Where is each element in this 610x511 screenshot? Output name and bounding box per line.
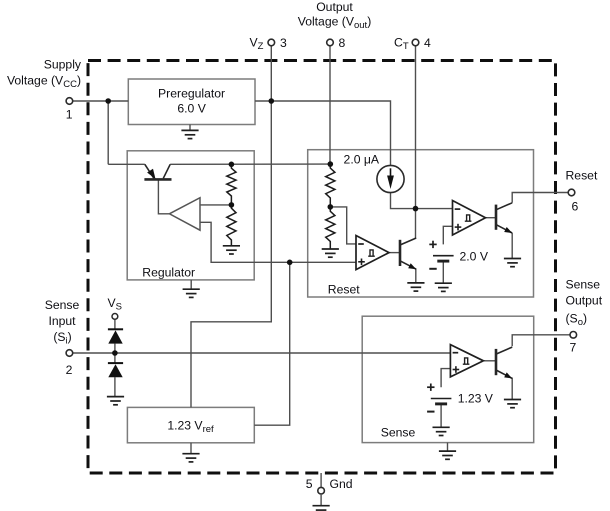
wire Vs pin to diode D1 [114, 319, 116, 329]
svg-text:Input: Input [48, 314, 76, 328]
Reset block box [308, 150, 534, 297]
ground battery B1 [435, 283, 452, 291]
node VZ-preregulator junction [269, 98, 275, 104]
wire sense input rail pin 2 to comparator U3 [73, 352, 451, 354]
Regulator block box [127, 151, 254, 280]
svg-text:6.0 V: 6.0 V [177, 102, 206, 116]
node R1 top junction [229, 162, 235, 168]
wire diode D2 to ground [114, 377, 116, 396]
wire regulator transistor base to op-amp output [158, 179, 169, 213]
comparator U1 reset lower [356, 236, 389, 270]
node Vout divider top [328, 161, 334, 167]
pin 7 Sense Output [566, 278, 603, 355]
Preregulator block box [128, 79, 255, 125]
svg-text:3: 3 [280, 36, 287, 50]
wire Q2 collector to Reset pin 6 [512, 193, 568, 203]
battery B1 2.0 V [429, 241, 453, 269]
ground diode D2 [107, 397, 124, 405]
wire Q3 emitter to ground [511, 378, 513, 400]
svg-text:2.0 μA: 2.0 μA [344, 153, 380, 167]
pin 6 Reset output [566, 169, 598, 214]
comparator U3 sense [450, 345, 483, 377]
ground Vref block [182, 454, 199, 462]
wire battery B2 to ground [440, 404, 442, 427]
pin 4 CT [394, 36, 431, 53]
wire comparator U2 output to Q2 base [485, 217, 496, 219]
wire Regulator ground stub [190, 280, 192, 289]
ground Regulator block [183, 289, 200, 297]
svg-text:Reset: Reset [328, 283, 360, 297]
ground Q1 emitter [407, 283, 424, 291]
svg-text:Reset: Reset [566, 169, 598, 183]
outer dashed IC boundary [88, 61, 556, 474]
current source I1 2.0 uA [377, 165, 404, 192]
svg-text:6: 6 [572, 200, 579, 214]
wire VZ pin 3 down and over to Vref [191, 46, 271, 408]
svg-text:4: 4 [424, 36, 431, 50]
wire pin1 to Preregulator [73, 100, 129, 102]
transistor Q2 reset output [496, 203, 512, 233]
wire CT pin 4 down [415, 46, 417, 209]
wire Preregulator output to current source [255, 101, 391, 165]
ground reset divider [322, 249, 339, 257]
transistor Q1 reset driver [400, 238, 416, 269]
pin 5 Gnd [306, 473, 353, 506]
pin Vs internal [108, 296, 122, 319]
node reset divider tap [328, 204, 334, 210]
ground battery B2 [433, 427, 450, 435]
svg-text:Regulator: Regulator [142, 266, 195, 280]
svg-text:1.23 V: 1.23 V [458, 392, 494, 406]
node sense input junction [112, 350, 118, 356]
pin 1 Supply Voltage VCC [7, 58, 82, 122]
transistor Q4 regulator PNP [144, 164, 171, 179]
ground Q3 emitter [504, 400, 521, 408]
wire Preregulator ground stub [189, 125, 191, 131]
wire sense node to diode D2 [114, 353, 116, 363]
node reference junction [287, 260, 293, 266]
svg-text:8: 8 [339, 36, 346, 50]
wire reference node down to Vref block [254, 262, 289, 425]
wire Q2 emitter to ground [511, 233, 513, 259]
diode D1 sense clamp to Vs [108, 329, 123, 343]
op-amp U4 regulator error amp [169, 198, 200, 231]
wire reference rail from op-amp to comparator U1 [200, 222, 356, 262]
wire comparator U3 noninverting input to battery [441, 369, 450, 388]
svg-text:Sense: Sense [381, 426, 416, 440]
wire battery B1 to ground [442, 261, 444, 283]
wire op-amp feedback input [200, 204, 231, 206]
wire Vout pin 8 down to Reset divider [329, 46, 331, 164]
wire current source output to comparator U2 inverting input [391, 193, 453, 209]
resistor R4 reset divider lower [326, 207, 335, 249]
comparator U2 reset output [453, 201, 486, 236]
wire diode D1 to sense node [114, 344, 116, 353]
transistor Q3 sense output [496, 347, 512, 378]
wire comparator U1 output to Q1 base [389, 252, 400, 254]
ground regulator divider [223, 246, 240, 254]
wire Reset divider tap to comparator U1 inverting input [330, 207, 356, 244]
1.23 Vref block box [127, 407, 254, 442]
wire Vref output stub [190, 406, 192, 408]
resistor R3 reset divider upper [326, 164, 335, 207]
wire Q1 emitter to ground [415, 269, 417, 283]
wire Q3 collector to Sense Output pin 7 [512, 335, 570, 346]
svg-text:Output: Output [566, 294, 603, 308]
node regulator divider tap [229, 202, 235, 208]
svg-text:5: 5 [306, 477, 313, 491]
ground Preregulator [181, 130, 198, 138]
svg-text:Sense: Sense [566, 278, 601, 292]
ground Q2 emitter [504, 259, 521, 267]
wire Vref ground stub [190, 443, 192, 454]
node Vcc junction [105, 98, 111, 104]
resistor R1 regulator divider upper [227, 164, 236, 205]
pin 2 Sense Input [45, 298, 80, 377]
node CT junction [413, 206, 419, 212]
pin 3 VZ [250, 36, 288, 53]
wire regulator transistor collector to Reset divider [170, 163, 330, 165]
wire Sense block ground stub [447, 443, 449, 452]
svg-text:7: 7 [570, 341, 577, 355]
svg-text:Output: Output [316, 0, 353, 14]
pin 8 Output Voltage Vout [298, 0, 372, 50]
ground pin 5 [313, 506, 330, 511]
battery B2 1.23 V [427, 384, 451, 412]
Sense block box [362, 316, 534, 442]
svg-text:Preregulator: Preregulator [158, 87, 225, 101]
diode D2 sense clamp to ground [108, 363, 123, 377]
wire Vcc rail to regulator transistor emitter [108, 163, 145, 165]
svg-text:2.0 V: 2.0 V [460, 249, 489, 263]
svg-text:Gnd: Gnd [330, 477, 353, 491]
wire comparator U3 output to Q3 base [484, 360, 496, 362]
wire Vcc branch down [107, 101, 109, 164]
wire Q1 collector riser [415, 209, 417, 239]
svg-text:1: 1 [66, 108, 73, 122]
svg-text:Sense: Sense [45, 298, 80, 312]
ground Sense block [439, 451, 456, 459]
wire comparator U2 noninverting input to battery [443, 226, 452, 244]
svg-text:2: 2 [66, 363, 73, 377]
svg-text:Supply: Supply [44, 58, 82, 72]
resistor R2 regulator divider lower [227, 205, 236, 246]
